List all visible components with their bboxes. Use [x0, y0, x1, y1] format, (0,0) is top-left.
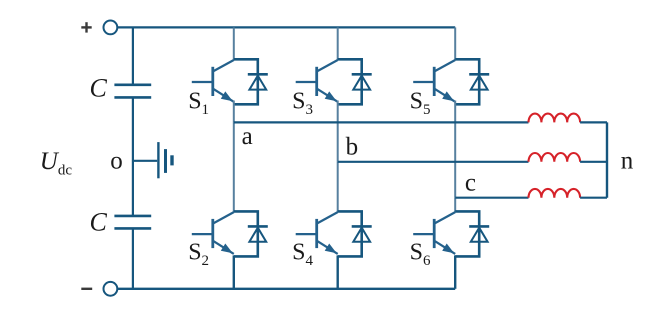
node o midpoint stub wire	[133, 160, 157, 162]
antiparallel diode of S6 (bracket wiring + diode)	[455, 211, 489, 256]
svg-text:a: a	[242, 123, 253, 150]
wire leg 3: S5 emitter down to phase node	[454, 101, 456, 198]
wire top rail to capacitor C1	[132, 27, 134, 85]
antiparallel diode of S4 (bracket wiring + diode)	[338, 211, 372, 256]
label -	[81, 288, 92, 290]
svg-text:S3: S3	[292, 89, 313, 118]
wire leg 2: phase node down to S4 collector	[337, 162, 339, 213]
wire bottom DC rail	[117, 288, 455, 290]
wire leg 1: phase node down to S2 collector	[233, 122, 235, 212]
svg-text:S4: S4	[292, 240, 313, 269]
svg-text:S1: S1	[188, 89, 209, 118]
svg-text:C: C	[90, 207, 108, 236]
antiparallel diode of S3 (bracket wiring + diode)	[338, 59, 372, 104]
wire phase b: leg to inductor	[338, 161, 529, 163]
IGBT transistor S2	[192, 212, 234, 254]
IGBT transistor S3	[296, 60, 338, 102]
svg-text:b: b	[346, 133, 359, 160]
wire leg 2: S4 emitter down to bottom rail	[337, 255, 339, 288]
wire phase c: inductor to neutral rail	[580, 197, 607, 199]
wire leg 3: phase node down to S6 collector	[454, 198, 456, 213]
wire leg 1: S2 emitter down to bottom rail	[233, 255, 235, 288]
svg-text:n: n	[621, 148, 634, 175]
antiparallel diode of S2 (bracket wiring + diode)	[234, 211, 268, 256]
terminal + (positive DC terminal circle)	[104, 21, 118, 35]
antiparallel diode of S5 (bracket wiring + diode)	[455, 59, 489, 104]
wire neutral rail (right vertical)	[606, 122, 608, 197]
wire phase b: inductor to neutral rail	[580, 161, 607, 163]
capacitor C1 (upper DC-link capacitor)	[114, 85, 151, 98]
inductor Lc (load inductor, phase c)	[529, 189, 581, 198]
svg-text:c: c	[465, 169, 476, 196]
wire leg 2: top rail down to S3 collector	[337, 27, 339, 60]
terminal - (negative DC terminal circle)	[104, 282, 118, 296]
wire leg 2: S3 emitter down to phase node	[337, 101, 339, 162]
svg-text:C: C	[90, 73, 108, 102]
ground symbol (sideways reference ground at node o)	[158, 142, 172, 178]
svg-text:Udc: Udc	[40, 148, 73, 178]
wire phase a: leg to inductor	[234, 121, 529, 123]
svg-text:S2: S2	[188, 240, 209, 269]
svg-text:S6: S6	[410, 240, 431, 269]
wire leg 3: S6 emitter down to bottom rail	[454, 255, 456, 288]
wire leg 1: S1 emitter down to phase node	[233, 101, 235, 123]
wire leg 3: top rail down to S5 collector	[454, 27, 456, 60]
inductor Lb (load inductor, phase b)	[529, 153, 581, 162]
wire top DC rail	[117, 26, 455, 28]
IGBT transistor S5	[413, 60, 455, 102]
svg-text:o: o	[110, 148, 123, 175]
IGBT transistor S6	[413, 212, 455, 254]
antiparallel diode of S1 (bracket wiring + diode)	[234, 59, 268, 104]
wire C1 to C2 through midpoint o	[132, 97, 134, 216]
wire phase a: inductor to neutral rail	[580, 121, 607, 123]
IGBT transistor S4	[296, 212, 338, 254]
label +	[81, 22, 91, 32]
svg-text:S5: S5	[410, 89, 431, 118]
wire phase c: leg to inductor	[455, 197, 528, 199]
inductor La (load inductor, phase a)	[529, 114, 581, 123]
wire leg 1: top rail down to S1 collector	[233, 27, 235, 60]
IGBT transistor S1	[192, 60, 234, 102]
wire C2 to bottom rail	[132, 228, 134, 288]
capacitor C2 (lower DC-link capacitor)	[114, 216, 151, 229]
